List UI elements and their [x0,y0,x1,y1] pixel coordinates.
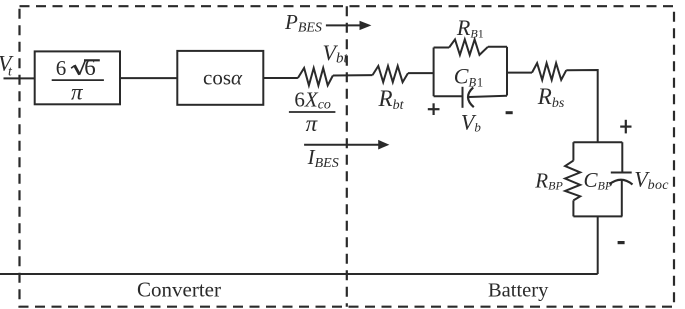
wire top branch right [488,46,507,48]
svg-text:IBES: IBES [307,145,339,171]
svg-text:π: π [71,80,84,105]
fraction bar box1 [52,79,104,81]
svg-text:PBES: PBES [284,10,322,35]
RC parallel block right vertical [506,47,508,96]
svg-text:Converter: Converter [137,277,221,301]
plus sign Vboc top [620,120,631,134]
resistor RBP vertical [565,161,580,201]
svg-text:6: 6 [84,55,96,80]
svg-text:Rbs: Rbs [537,84,565,111]
arrow IBES head [378,140,389,150]
resistor 6Xco/pi [298,68,333,85]
radical sign [71,60,100,75]
resistor Rbt [373,66,409,82]
svg-text:Vbt: Vbt [323,40,349,66]
fraction bar 6Xco/pi [289,111,336,113]
resistor Rbs [532,63,566,80]
wire below bottom block [597,216,599,274]
converter gain block 6sqrt6/pi [35,51,120,104]
minus sign Vboc bottom [618,241,625,244]
svg-text:6: 6 [56,56,67,80]
bottom RC block bottom edge [573,215,622,217]
capacitor CB1 curved plate [468,87,474,107]
capacitor CB1 straight plate [462,87,464,108]
svg-text:Vt: Vt [0,50,14,79]
bottom RC block right vertical upper [621,142,623,172]
svg-text:π: π [306,111,319,136]
arrow PBES head [360,21,372,30]
capacitor CBP lower lead [621,181,623,217]
RC parallel block left vertical [433,48,435,97]
svg-text:Vb: Vb [461,109,481,134]
svg-text:RB1: RB1 [456,15,484,41]
wire to Rbs [507,72,532,74]
dashed divider converter/battery [346,6,348,307]
wire to RC block [408,72,434,74]
bottom RC block left vertical lower [572,200,574,216]
svg-text:RBP: RBP [534,168,563,192]
minus sign Vb right [506,111,513,114]
resistor RB1 [449,39,488,55]
wire Vt input [4,77,35,79]
arrow IBES line [304,144,380,146]
svg-text:Rbt: Rbt [378,86,405,113]
wire node Vbt [333,74,373,76]
svg-text:CB1: CB1 [454,64,483,90]
wire bottom branch right [469,96,507,97]
capacitor CBP straight plate [611,172,632,174]
bottom RC block top edge [573,141,622,143]
capacitor CBP curved plate [610,180,633,185]
wire between blocks [120,77,177,79]
wire to commutation reactance [263,77,298,79]
wire corner to vertical [566,70,597,142]
converter block cos-alpha [177,51,263,105]
svg-text:6Xco: 6Xco [294,88,331,113]
arrow PBES line [326,24,362,26]
bottom RC block left vertical upper [572,142,574,160]
wire top branch left [434,47,450,49]
bottom return wire [0,273,598,275]
svg-text:Vboc: Vboc [634,166,669,192]
svg-text:CBP: CBP [584,168,613,192]
plus sign Vb left [428,103,440,115]
wire bottom branch left [434,95,463,97]
svg-text:Battery: Battery [488,280,549,302]
svg-text:cosα: cosα [203,66,243,90]
